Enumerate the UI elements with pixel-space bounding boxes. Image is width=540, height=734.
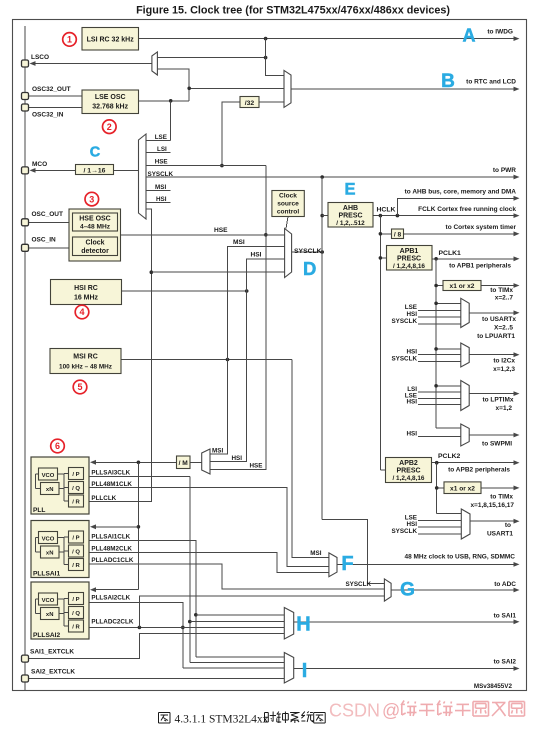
svg-text:OSC_IN: OSC_IN [32, 237, 57, 244]
svg-text:HSI: HSI [407, 349, 418, 356]
svg-text:xN: xN [46, 487, 54, 493]
svg-text:PLLSAI2CLK: PLLSAI2CLK [91, 595, 130, 602]
svg-text:3: 3 [89, 194, 94, 204]
svg-text:/ 1,2,..512: / 1,2,..512 [336, 220, 365, 227]
svg-text:x=1,2,3: x=1,2,3 [493, 366, 515, 373]
svg-text:SYSCLK: SYSCLK [391, 528, 417, 535]
svg-text:E: E [344, 181, 355, 199]
svg-text:H: H [296, 614, 310, 636]
svg-text:HSI RC: HSI RC [74, 285, 98, 292]
svg-text:PRESC: PRESC [396, 468, 420, 475]
svg-text:to IWDG: to IWDG [487, 29, 513, 36]
svg-text:PLLSAI2: PLLSAI2 [33, 632, 60, 639]
svg-text:VCO: VCO [42, 536, 55, 542]
svg-text:MCO: MCO [32, 161, 47, 168]
svg-text:to LPUART1: to LPUART1 [477, 333, 515, 340]
svg-text:LSE: LSE [155, 134, 167, 141]
svg-text:HSI: HSI [232, 455, 243, 462]
svg-text:Figure 15. Clock tree (for STM: Figure 15. Clock tree (for STM32L475xx/4… [136, 5, 450, 17]
svg-text:x1 or x2: x1 or x2 [450, 485, 475, 492]
svg-text:to USARTx: to USARTx [482, 316, 516, 323]
svg-text:100 kHz – 48 MHz: 100 kHz – 48 MHz [59, 364, 112, 371]
svg-text:to ADC: to ADC [494, 581, 516, 588]
svg-text:AHB: AHB [343, 205, 358, 212]
svg-text:PLLADC2CLK: PLLADC2CLK [91, 618, 133, 625]
svg-text:/ Q: / Q [72, 550, 80, 556]
svg-text:SAI2_EXTCLK: SAI2_EXTCLK [31, 669, 75, 676]
svg-text:to APB2 peripherals: to APB2 peripherals [448, 467, 510, 474]
svg-text:32.768 kHz: 32.768 kHz [92, 104, 128, 111]
svg-text:D: D [303, 258, 316, 279]
svg-text:4.3.1.1 STM32L4xx: 4.3.1.1 STM32L4xx [175, 714, 269, 726]
svg-text:/ R: / R [72, 625, 80, 631]
svg-text:G: G [400, 580, 415, 601]
svg-text:HSE: HSE [250, 463, 263, 470]
svg-text:x=2..7: x=2..7 [495, 295, 514, 302]
svg-text:PRESC: PRESC [338, 213, 362, 220]
svg-text:/32: /32 [245, 100, 255, 107]
svg-text:OSC32_IN: OSC32_IN [32, 112, 64, 119]
svg-text:HCLK: HCLK [377, 207, 396, 214]
svg-text:/ P: / P [72, 472, 79, 478]
svg-text:APB1: APB1 [400, 248, 419, 255]
svg-text:/ Q: / Q [72, 486, 80, 492]
svg-text:LSCO: LSCO [31, 54, 49, 61]
svg-text:HSE OSC: HSE OSC [79, 216, 111, 223]
svg-text:5: 5 [77, 382, 82, 392]
svg-text:SYSCLK: SYSCLK [345, 581, 371, 588]
svg-text:48 MHz clock to USB, RNG, SDMM: 48 MHz clock to USB, RNG, SDMMC [404, 554, 515, 561]
svg-text:A: A [463, 26, 476, 46]
svg-text:/ 1,2,4,8,16: / 1,2,4,8,16 [393, 263, 425, 270]
svg-text:PLL48M2CLK: PLL48M2CLK [91, 546, 132, 553]
svg-text:PLLCLK: PLLCLK [91, 495, 116, 502]
svg-text:SYSCLK: SYSCLK [391, 356, 417, 363]
svg-text:/ R: / R [72, 563, 80, 569]
svg-text:to APB1 peripherals: to APB1 peripherals [449, 263, 511, 270]
svg-text:F: F [341, 553, 353, 575]
svg-text:SYSCLK: SYSCLK [294, 248, 322, 255]
svg-text:CSDN: CSDN [329, 701, 380, 721]
svg-text:control: control [277, 209, 300, 216]
svg-text:APB2: APB2 [399, 460, 418, 467]
svg-text:x1 or x2: x1 or x2 [450, 283, 475, 290]
svg-text:to Cortex system timer: to Cortex system timer [446, 224, 517, 231]
svg-text:to RTC and LCD: to RTC and LCD [466, 79, 516, 86]
svg-text:MSv38455V2: MSv38455V2 [474, 683, 513, 690]
svg-text:MSI RC: MSI RC [73, 354, 98, 361]
svg-text:source: source [277, 201, 299, 208]
svg-text:/ 1→16: / 1→16 [84, 168, 106, 175]
svg-text:16 MHz: 16 MHz [74, 295, 99, 302]
svg-text:MSI: MSI [212, 448, 223, 455]
svg-text:to LPTIMx: to LPTIMx [482, 397, 513, 404]
svg-text:SYSCLK: SYSCLK [148, 171, 174, 178]
svg-text:PLLSAI1CLK: PLLSAI1CLK [91, 534, 130, 541]
svg-text:to PWR: to PWR [493, 167, 516, 174]
svg-text:LSI RC 32 kHz: LSI RC 32 kHz [87, 37, 135, 44]
svg-text:detector: detector [81, 248, 109, 255]
svg-text:/ P: / P [72, 536, 79, 542]
svg-text:FCLK Cortex free running clock: FCLK Cortex free running clock [418, 206, 516, 213]
svg-text:PCLK2: PCLK2 [438, 453, 461, 460]
svg-text:PLL: PLL [33, 507, 45, 514]
svg-text:Clock: Clock [85, 240, 104, 247]
svg-text:HSI: HSI [407, 430, 418, 437]
svg-text:SAI1_EXTCLK: SAI1_EXTCLK [30, 649, 74, 656]
svg-text:MSI: MSI [310, 550, 321, 557]
svg-text:6: 6 [55, 441, 60, 451]
svg-text:to I2Cx: to I2Cx [493, 358, 515, 365]
svg-text:VCO: VCO [42, 598, 55, 604]
svg-text:@: @ [382, 701, 400, 721]
svg-text:x=1,8,15,16,17: x=1,8,15,16,17 [470, 502, 514, 509]
svg-text:C: C [90, 145, 101, 161]
svg-text:X=2..5: X=2..5 [494, 325, 513, 332]
svg-text:x=1,2: x=1,2 [496, 405, 513, 412]
svg-text:/ M: / M [179, 460, 189, 467]
svg-text:MSI: MSI [155, 184, 166, 191]
svg-text:to TIMx: to TIMx [490, 287, 513, 294]
svg-text:to SAI1: to SAI1 [494, 613, 517, 620]
svg-text:HSI: HSI [156, 196, 167, 203]
svg-text:PCLK1: PCLK1 [439, 250, 462, 257]
svg-text:/ Q: / Q [72, 611, 80, 617]
svg-text:PLLADC1CLK: PLLADC1CLK [91, 557, 133, 564]
svg-text:OSC32_OUT: OSC32_OUT [32, 86, 71, 93]
svg-text:to TIMx: to TIMx [490, 494, 513, 501]
svg-text:4–48 MHz: 4–48 MHz [80, 224, 111, 231]
svg-text:4: 4 [79, 307, 84, 317]
svg-text:HSE: HSE [214, 227, 228, 234]
svg-text:to: to [505, 522, 511, 529]
svg-text:I: I [302, 660, 308, 682]
svg-text:MSI: MSI [233, 239, 245, 246]
svg-text:PLLSAI1: PLLSAI1 [33, 571, 60, 578]
svg-text:B: B [441, 71, 455, 92]
svg-text:VCO: VCO [42, 473, 55, 479]
svg-text:1: 1 [67, 35, 72, 45]
svg-text:to SWPMI: to SWPMI [482, 441, 512, 448]
svg-text:HSI: HSI [407, 398, 418, 405]
svg-text:xN: xN [46, 551, 54, 557]
svg-text:USART1: USART1 [487, 531, 513, 538]
svg-text:/ 1,2,4,8,16: / 1,2,4,8,16 [393, 475, 425, 482]
svg-text:PRESC: PRESC [397, 256, 421, 263]
svg-text:/ P: / P [72, 597, 79, 603]
svg-text:OSC_OUT: OSC_OUT [32, 211, 63, 218]
svg-text:LSI: LSI [157, 146, 167, 153]
svg-text:SYSCLK: SYSCLK [391, 318, 417, 325]
svg-text:HSI: HSI [251, 252, 262, 259]
svg-text:/ 8: / 8 [394, 231, 402, 238]
svg-text:PLLSAI3CLK: PLLSAI3CLK [91, 469, 130, 476]
svg-text:HSE: HSE [155, 159, 168, 166]
svg-text:PLL48M1CLK: PLL48M1CLK [91, 481, 132, 488]
svg-text:to SAI2: to SAI2 [494, 659, 517, 666]
svg-text:to AHB bus, core, memory and D: to AHB bus, core, memory and DMA [405, 188, 517, 195]
svg-text:xN: xN [46, 612, 54, 618]
svg-text:LSE OSC: LSE OSC [95, 94, 126, 101]
svg-text:Clock: Clock [279, 193, 297, 200]
svg-text:/ R: / R [72, 500, 80, 506]
svg-text:2: 2 [107, 122, 112, 132]
